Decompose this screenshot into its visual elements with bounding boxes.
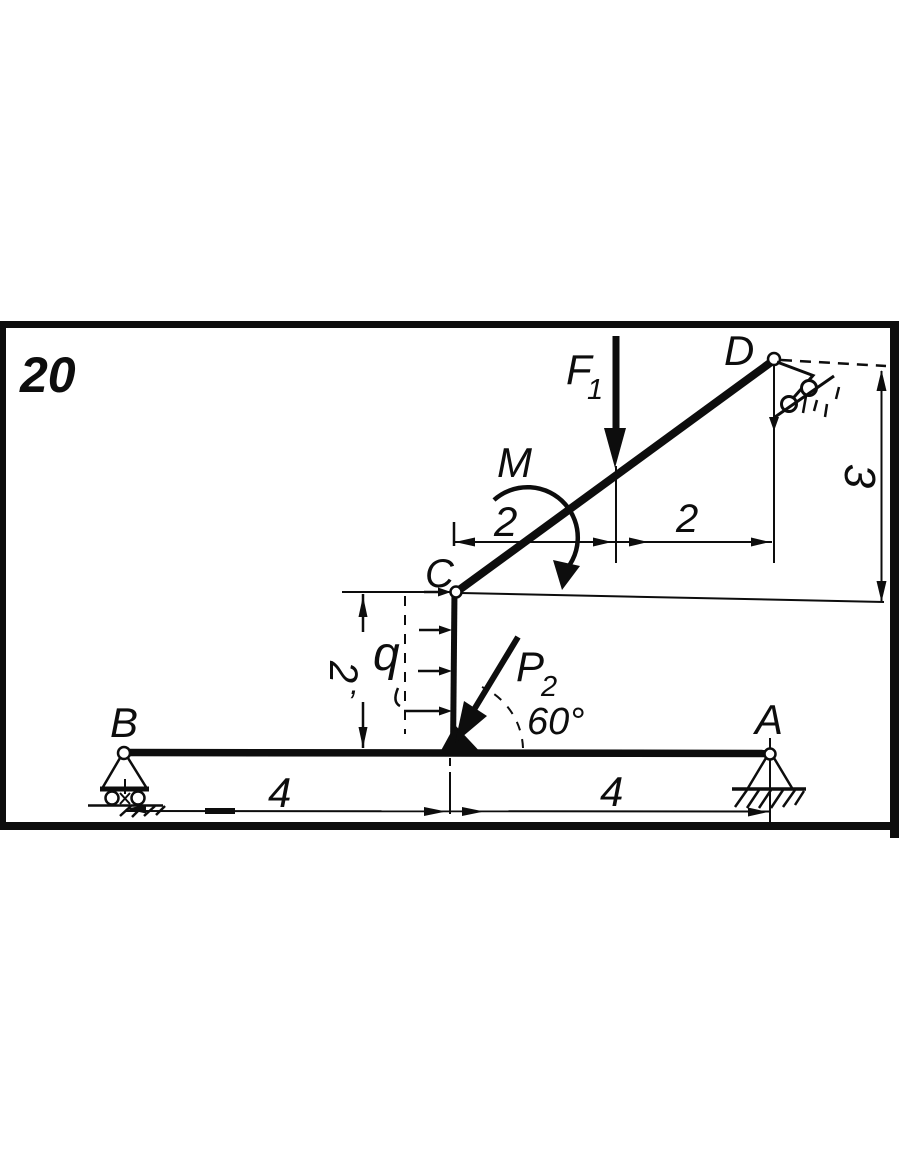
- load arrow 2: [419, 629, 440, 632]
- dim 4 lump left: [205, 808, 235, 814]
- load arrow 4: [404, 710, 440, 713]
- svg-text:q: q: [373, 628, 400, 681]
- svg-text:4: 4: [600, 768, 623, 815]
- pin D: [768, 353, 780, 365]
- dashed line of distributed load: [404, 596, 406, 734]
- support A triangle: [748, 758, 792, 788]
- frame border right: [890, 321, 899, 838]
- frame border bottom: [0, 822, 898, 830]
- roller support at D: roller 1: [782, 397, 797, 412]
- svg-text:20: 20: [19, 347, 76, 403]
- top extension line for vertical dimension 2: [342, 591, 450, 593]
- extension line below D: [773, 365, 775, 563]
- moment M arrowhead: [553, 560, 580, 590]
- angle arc 60 deg (dashed): [482, 687, 523, 748]
- svg-text:D: D: [724, 327, 754, 374]
- dimension 3 top arrow: [877, 370, 887, 391]
- support A pin circle: [765, 749, 776, 760]
- support B roller left: [106, 792, 119, 805]
- dim arrow mid-left: [593, 538, 612, 547]
- svg-text:2: 2: [493, 498, 517, 545]
- pin C: [451, 587, 462, 598]
- dim arrow mid-right: [629, 538, 648, 547]
- dimension 3 line: [881, 371, 883, 601]
- dim arrow left at C: [455, 538, 475, 547]
- dimension line 4+4 (y=811): [126, 810, 769, 813]
- dim 4 mid lump 2: [462, 807, 484, 816]
- roller support at D: hatch strokes: [803, 387, 839, 417]
- dim 4 center tick: [449, 772, 451, 814]
- support B cross between rollers: [120, 793, 130, 804]
- force P2 arrowhead: [455, 701, 487, 743]
- support A ground line: [732, 787, 806, 791]
- moment M arc: [494, 487, 578, 575]
- ink blob on extension line: [769, 417, 779, 431]
- dashed line from D to dimension 3: [781, 360, 886, 366]
- support B centering tick: [124, 779, 126, 794]
- roller support at D: link plate: [777, 362, 813, 404]
- roller support at D: roller 2: [802, 381, 817, 396]
- support A tick: [769, 738, 771, 748]
- column from C down to beam junction: [453, 590, 455, 753]
- vertical dimension 2 bottom arrow: [359, 727, 368, 748]
- dim 4 left arrow: [126, 805, 146, 814]
- svg-text:60°: 60°: [527, 701, 584, 743]
- svg-text:,: ,: [350, 665, 359, 701]
- beam BA: [126, 753, 769, 754]
- svg-text:2: 2: [540, 671, 557, 703]
- svg-text:3: 3: [835, 464, 884, 489]
- roller support at D: inclined surface: [775, 376, 834, 417]
- load arrow 3: [418, 670, 440, 673]
- svg-text:1: 1: [587, 374, 603, 406]
- dim 4 mid lump 1: [424, 807, 446, 816]
- frame border top: [2, 321, 897, 328]
- dim 4 right arrow: [748, 808, 768, 817]
- vertical dimension 2 line lower: [362, 702, 365, 748]
- force F1 shaft: [613, 336, 620, 430]
- dashed line below junction: [449, 758, 451, 772]
- vertical dimension 2 top arrow: [359, 596, 368, 617]
- support B triangle: [103, 758, 146, 787]
- vertical dimension 2 line upper: [362, 594, 365, 632]
- svg-text:M: M: [497, 439, 532, 486]
- dimension line 2+2 (y=542): [455, 541, 772, 543]
- force F1 extension line: [615, 466, 617, 563]
- support B base plate: [100, 787, 149, 792]
- dim arrow right at D line: [751, 538, 770, 547]
- svg-text:2: 2: [675, 497, 698, 541]
- line at C level to dimension 3: [461, 593, 884, 602]
- svg-text:B: B: [110, 699, 138, 746]
- svg-text:A: A: [752, 696, 783, 743]
- force F1 arrowhead: [604, 428, 626, 468]
- svg-text:4: 4: [268, 769, 291, 816]
- support B roller right: [132, 792, 145, 805]
- force P2 shaft: [472, 637, 518, 713]
- dimension tick at C: [453, 522, 456, 546]
- support A hatching: [735, 790, 804, 808]
- support A center line: [769, 760, 771, 822]
- frame border left: [0, 321, 6, 829]
- dimension 3 bottom arrow: [877, 581, 887, 602]
- bar CD: [455, 360, 774, 593]
- svg-text:P: P: [516, 643, 544, 690]
- support B pin circle: [118, 747, 130, 759]
- support B ground line: [88, 804, 163, 807]
- q label swash tail: [395, 688, 400, 706]
- load arrow 1: [424, 591, 440, 594]
- support B hatching: [120, 806, 165, 817]
- junction fillet at column-beam joint: [438, 725, 484, 756]
